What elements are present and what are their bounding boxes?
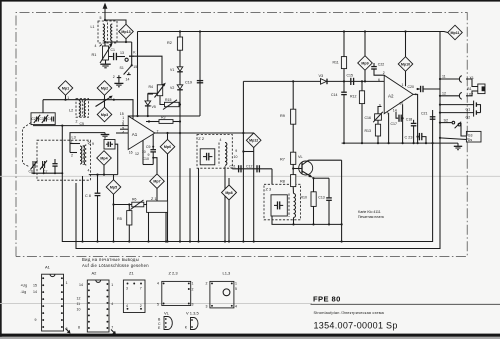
top supply bus: [138, 32, 448, 33]
svg-text:1: 1: [192, 282, 194, 286]
wire Z1 bottom right: [165, 212, 167, 241]
scan bottom band: [0, 334, 500, 337]
svg-text:C10: C10: [143, 157, 149, 161]
svg-text:Mp2: Mp2: [101, 86, 108, 90]
node R5 bus: [128, 240, 130, 242]
diode V1: [177, 67, 183, 72]
node Mp2 bus: [103, 99, 105, 101]
Z2 inner box with capacitor: [200, 149, 215, 165]
svg-text:Mp3: Mp3: [101, 113, 108, 117]
node S2 tap: [439, 122, 441, 124]
antenna arrow: [103, 3, 108, 21]
scan left edge: [0, 0, 2, 339]
svg-text:5: 5: [157, 303, 159, 307]
Mp5 diamond: [106, 175, 121, 195]
svg-text:14: 14: [126, 78, 130, 82]
wire X2: [440, 95, 460, 97]
node column/bus: [341, 240, 343, 242]
svg-text:S1: S1: [120, 66, 124, 70]
svg-text:L2: L2: [69, 109, 73, 113]
svg-text:2: 2: [76, 120, 78, 124]
svg-text:C14: C14: [331, 93, 337, 97]
wire collector column: [341, 160, 343, 241]
Mp12 diamond: [246, 133, 261, 148]
wire Z3 winding to line: [293, 218, 295, 225]
node Mp10 top: [404, 30, 406, 32]
svg-text:C 23: C 23: [405, 136, 413, 140]
wire R8 to Z3: [292, 187, 294, 194]
node Mp5 bus: [112, 240, 114, 242]
svg-text:Auf die Lötanschlüsse gesehen: Auf die Lötanschlüsse gesehen: [82, 263, 149, 268]
node bus right: [113, 99, 115, 101]
node Mp8 bus: [228, 240, 230, 242]
wire node row: [105, 41, 132, 43]
svg-text:R5: R5: [117, 217, 122, 221]
node column/z3line: [341, 223, 343, 225]
svg-text:10: 10: [234, 155, 238, 159]
svg-text:K: K: [133, 51, 136, 55]
svg-text:Mp9: Mp9: [361, 61, 368, 65]
svg-text:K: K: [185, 326, 188, 330]
node C17/pin10: [402, 117, 404, 119]
node R2 top: [179, 30, 181, 32]
wire R4 wiper: [148, 92, 158, 94]
wire signal to V3: [243, 80, 384, 82]
svg-text:A1: A1: [132, 132, 138, 137]
node X2 tap: [439, 95, 441, 97]
svg-text:R12: R12: [350, 95, 356, 99]
wire C12 to Z3: [271, 169, 273, 185]
svg-text:C2: C2: [31, 117, 36, 121]
svg-text:A2: A2: [92, 271, 98, 276]
svg-text:E: E: [158, 326, 161, 330]
Mp9 diamond: [358, 32, 373, 71]
svg-text:R3: R3: [161, 115, 166, 119]
svg-text:13: 13: [120, 51, 124, 55]
transformer L3 module dashed box: [37, 140, 90, 180]
svg-text:Z 1: Z 1: [151, 197, 157, 201]
node R11 bottom: [343, 80, 345, 82]
resistor R9: [291, 81, 296, 124]
svg-text:2: 2: [383, 71, 385, 75]
Mp3 diamond: [97, 107, 112, 122]
node Mp1: [64, 99, 66, 101]
wire Mp12 bottom: [253, 148, 255, 242]
svg-text:R10: R10: [301, 196, 307, 200]
Mp4 diamond: [97, 151, 112, 166]
svg-text:C4: C4: [47, 117, 52, 121]
ground above Mp4: [101, 133, 110, 138]
svg-text:2: 2: [206, 282, 208, 286]
node L3 bus: [81, 240, 83, 242]
resistor R4 (pot): [155, 83, 166, 98]
svg-text:V 1.3,5: V 1.3,5: [186, 311, 199, 316]
transistor VL: [293, 160, 313, 177]
resistor R6 (pot): [131, 200, 144, 210]
wire Z2 to C11: [232, 168, 272, 170]
arrow L1 pin 4: [99, 43, 102, 46]
svg-text:V2: V2: [170, 86, 174, 90]
svg-text:V1: V1: [170, 68, 174, 72]
IC package A1: [42, 274, 64, 331]
node x137: [136, 115, 138, 117]
wire down to C2 box: [42, 100, 44, 113]
svg-text:6: 6: [378, 78, 380, 82]
capacitor C18: [411, 120, 417, 143]
svg-text:R9: R9: [280, 114, 285, 118]
svg-text:7: 7: [111, 326, 113, 330]
svg-text:C19: C19: [185, 81, 192, 85]
svg-text:R2: R2: [167, 41, 172, 45]
svg-text:14: 14: [79, 283, 83, 287]
wire pin7 to bus: [388, 113, 390, 143]
battery G3 box: [466, 131, 481, 142]
trimmer C6: [31, 161, 38, 170]
svg-text:R11: R11: [333, 61, 339, 65]
svg-text:5: 5: [100, 16, 102, 20]
svg-text:4: 4: [157, 282, 159, 286]
svg-text:A2: A2: [388, 94, 394, 99]
svg-text:14: 14: [393, 108, 397, 112]
svg-text:C12: C12: [246, 164, 252, 168]
wire L3 to Mp5: [89, 174, 118, 176]
svg-text:Mp8: Mp8: [225, 191, 232, 195]
resistor R10: [311, 192, 316, 207]
svg-text:Z1: Z1: [129, 271, 134, 276]
node G2 tap: [439, 112, 441, 114]
inner box 2 (return bus rectangle): [76, 32, 440, 249]
node R12 top: [361, 80, 363, 82]
capacitor C14: [341, 81, 347, 143]
svg-text:VL: VL: [298, 155, 303, 159]
node pin10 bus: [402, 142, 404, 144]
node bus/box1: [61, 125, 63, 127]
filter Z1: [144, 201, 168, 212]
wire X1: [440, 78, 460, 80]
svg-text:C15: C15: [347, 74, 353, 78]
svg-text:1: 1: [402, 83, 404, 87]
wire A1 pin stub 4: [116, 132, 128, 134]
wire Mp13 to node row: [125, 39, 127, 42]
stubs to inner bus: [34, 168, 44, 173]
node R12 bus: [361, 142, 363, 144]
scan top edge: [0, 0, 500, 2]
svg-text:R6: R6: [132, 198, 137, 202]
contact K vertical wire: [131, 42, 133, 56]
node C13: [328, 223, 330, 225]
wire bus y=125.6: [33, 125, 128, 127]
svg-text:C13: C13: [318, 196, 324, 200]
svg-text:C22: C22: [378, 63, 384, 67]
svg-text:Ds: Ds: [468, 138, 473, 142]
svg-text:C16: C16: [365, 116, 371, 120]
svg-text:1: 1: [235, 282, 237, 286]
wire A1 bottom link: [143, 164, 153, 166]
svg-text:9: 9: [35, 318, 37, 322]
switch S1 contact circle: [125, 58, 128, 61]
wire Z2 stub mid to bus: [189, 168, 191, 241]
node Z2 r: [224, 240, 226, 242]
node Z1 bl: [147, 240, 149, 242]
resistor R5: [127, 211, 132, 225]
svg-text:11: 11: [77, 302, 81, 306]
resistor R13: [375, 124, 380, 136]
svg-text:Mp11: Mp11: [451, 31, 460, 35]
resistor R12: [359, 81, 364, 143]
node R5 top: [128, 203, 130, 205]
capacitor C19 column: [197, 32, 203, 117]
package L1,3: [206, 281, 238, 308]
node G1 tap: [439, 104, 441, 106]
node under Mp13: [125, 41, 127, 43]
filter Z3 dashed box: [264, 184, 301, 220]
earphone B1: [466, 79, 485, 96]
svg-text:+Ug: +Ug: [21, 284, 28, 288]
pin labels A1: [120, 112, 159, 157]
svg-text:10: 10: [77, 308, 81, 312]
svg-text:L1,3: L1,3: [223, 271, 232, 276]
svg-text:5: 5: [88, 141, 90, 145]
node Mp9 bottom: [364, 80, 366, 82]
svg-text:C21: C21: [421, 112, 427, 116]
diode V5: [145, 93, 153, 116]
node G3 tap: [439, 137, 441, 139]
svg-text:R7: R7: [280, 158, 285, 162]
capacitor C10: [152, 157, 157, 174]
node C19 top: [199, 30, 201, 32]
svg-text:5: 5: [235, 287, 237, 291]
svg-text:1354.007-00001 Sp: 1354.007-00001 Sp: [314, 321, 398, 331]
dashed link to lower box: [23, 123, 32, 168]
transformer L3 windings: [80, 145, 86, 165]
svg-text:4: 4: [111, 302, 113, 306]
resistor R15: [163, 100, 179, 110]
wire R2 to V1: [179, 50, 181, 67]
Z3 winding: [289, 194, 296, 218]
Z2 winding: [219, 143, 227, 166]
svg-text:16: 16: [129, 151, 133, 155]
node antenna top: [104, 19, 106, 21]
wire Z3 bottom line: [272, 216, 342, 224]
capacitor C8: [95, 175, 101, 242]
svg-text:4: 4: [122, 130, 124, 134]
Mp7 diamond: [150, 174, 165, 189]
wire L3 inner bus: [32, 172, 63, 174]
wire Mp6 bottom to bus: [167, 154, 169, 242]
svg-text:14: 14: [33, 290, 37, 294]
svg-text:11: 11: [442, 75, 446, 79]
Mp11 diamond: [448, 25, 463, 40]
trimmer C7: [40, 161, 47, 170]
node column bus: [242, 240, 244, 242]
svg-text:C1: C1: [111, 48, 116, 52]
wire Z2 stub right to bus: [224, 166, 226, 241]
inner box 1 (ground bus rectangle): [62, 110, 432, 242]
wire G3 lower: [440, 138, 466, 140]
S1 right contact: [127, 72, 131, 74]
node R6/Mp5 column: [112, 203, 114, 205]
svg-text:C17: C17: [391, 122, 397, 126]
node box1/bus: [432, 142, 434, 144]
wire R7 to R8: [292, 164, 294, 174]
svg-text:R13: R13: [365, 129, 371, 133]
node apex Mp6: [166, 132, 168, 134]
wire C9 box to lower bus: [115, 144, 118, 174]
svg-text:Mp10: Mp10: [401, 62, 410, 66]
wire pin14: [396, 112, 398, 118]
wire R6 to R5: [128, 205, 130, 211]
switch S1 arm: [124, 65, 132, 74]
Mp13 diamond: [119, 24, 134, 39]
svg-text:3: 3: [206, 305, 208, 309]
node C20 tap: [417, 88, 419, 90]
svg-text:8: 8: [78, 326, 80, 330]
svg-text:2: 2: [192, 288, 194, 292]
svg-text:G1: G1: [466, 108, 471, 112]
trimmer C16: [373, 112, 383, 122]
wire y=116 to C19 column: [128, 115, 200, 117]
svg-text:Z 2,3: Z 2,3: [169, 271, 179, 276]
node C14 bus: [343, 142, 345, 144]
nodes inner bus: [33, 172, 63, 174]
connector X1: [459, 76, 461, 83]
wire VL emitter: [313, 177, 314, 191]
svg-text:12: 12: [77, 297, 81, 301]
svg-text:4: 4: [235, 305, 237, 309]
title underline: [311, 303, 500, 305]
Mp10 diamond: [398, 32, 413, 72]
wire R5 to bus: [128, 225, 130, 242]
svg-text:4: 4: [88, 169, 90, 173]
wire VL collector: [309, 159, 342, 161]
node column/bus: [179, 240, 181, 242]
svg-text:C 8: C 8: [85, 194, 91, 198]
wire R10 to line: [313, 206, 315, 224]
svg-text:10: 10: [142, 150, 146, 154]
wire K to S1 pivot: [131, 56, 133, 65]
package Z1: [123, 280, 145, 313]
node R10: [312, 223, 314, 225]
capacitor C9 (under A1): [150, 134, 156, 164]
svg-text:Z 2: Z 2: [198, 136, 205, 141]
node R11 top: [343, 30, 345, 32]
wire Z2 stub left to bus: [198, 168, 200, 241]
svg-text:R15: R15: [165, 98, 171, 102]
transformer L2: [76, 99, 89, 118]
wire R6 left: [114, 204, 132, 206]
battery G2: [440, 109, 481, 117]
wire Mp6 top stub: [167, 133, 169, 139]
capacitor C23: [418, 133, 426, 143]
capacitor C11: [239, 165, 241, 172]
node apex/column: [179, 132, 181, 134]
wire Mp5 to bus: [113, 194, 115, 241]
contact K bar: [129, 55, 134, 57]
svg-text:C11: C11: [230, 164, 236, 168]
wire Mp4 stub: [103, 165, 105, 174]
svg-text:-Ug: -Ug: [21, 290, 27, 294]
wire Mp10 bottom: [405, 71, 407, 86]
wire L3 pins: [70, 144, 80, 153]
wire Mp9 bottom: [364, 70, 366, 81]
node apex x243: [242, 132, 244, 134]
wire C16 to R13: [377, 120, 379, 124]
wire ground bus A2: [342, 142, 458, 144]
transformer L1: [98, 21, 117, 43]
module boundary dash-dot frame: [16, 13, 467, 257]
wire pin10 column: [402, 104, 404, 143]
wire V1 to V2: [179, 72, 181, 85]
crease line middle: [0, 175, 500, 177]
wire K bar to R4 top: [134, 56, 162, 85]
wire Mp7 to Z1: [156, 189, 158, 202]
wire A1 bottom stub left: [142, 140, 144, 164]
svg-text:3: 3: [126, 287, 128, 291]
capacitor C12: [257, 165, 259, 172]
svg-text:FPE 80: FPE 80: [313, 295, 341, 304]
diode V2: [177, 85, 183, 90]
svg-text:7: 7: [140, 287, 142, 291]
wire left edge of stage box: [137, 32, 139, 117]
Mp6 diamond: [160, 139, 175, 154]
node R3 left: [148, 120, 150, 122]
svg-text:1: 1: [71, 140, 73, 144]
wire A2 output: [413, 94, 417, 143]
capacitor C17: [399, 115, 403, 122]
Mp2 diamond: [97, 81, 112, 96]
svg-text:1: 1: [111, 283, 113, 287]
node pin7 bus: [388, 142, 390, 144]
wire R13 to bus: [377, 136, 379, 143]
svg-text:R8: R8: [280, 180, 285, 184]
wire bus y=99.7: [43, 100, 133, 120]
svg-text:2: 2: [71, 154, 73, 158]
wire R9 to R7: [292, 124, 294, 152]
node Z1 br: [165, 240, 167, 242]
svg-text:9: 9: [235, 149, 237, 153]
node emitter: [312, 177, 314, 179]
S1 lower-left contact: [117, 75, 121, 77]
connector X2: [459, 92, 461, 99]
svg-text:C9: C9: [146, 145, 151, 149]
svg-text:4: 4: [95, 44, 97, 48]
node C8 bus: [96, 240, 98, 242]
svg-text:12: 12: [135, 152, 139, 156]
wire Mp2 to Mp3: [104, 95, 106, 107]
svg-text:4: 4: [220, 138, 222, 142]
node link: [242, 150, 244, 152]
Z3 inner box with capacitor: [271, 195, 287, 216]
svg-text:A1: A1: [45, 265, 51, 270]
svg-text:Mp5: Mp5: [110, 185, 117, 189]
svg-text:C20: C20: [408, 85, 414, 89]
wire Mp1 stub: [65, 95, 67, 99]
svg-text:Stromlaufplan /Электрическая с: Stromlaufplan /Электрическая схема: [314, 311, 385, 315]
wire emitter to C13: [314, 177, 330, 179]
wire pin9: [378, 107, 382, 114]
wire column x=243: [242, 81, 244, 241]
resistor R11: [341, 32, 346, 82]
Mp8 diamond: [222, 178, 237, 200]
capacitor fixed in L3 box: [52, 159, 57, 173]
svg-text:Karte Klo 4111: Karte Klo 4111: [358, 210, 381, 214]
svg-text:7: 7: [386, 112, 388, 116]
A2 pin labels: [77, 283, 114, 330]
svg-text:2: 2: [113, 75, 115, 79]
capacitor C13: [326, 178, 332, 224]
wire antenna to Mp13: [105, 20, 126, 24]
svg-text:Z 3: Z 3: [266, 186, 273, 191]
